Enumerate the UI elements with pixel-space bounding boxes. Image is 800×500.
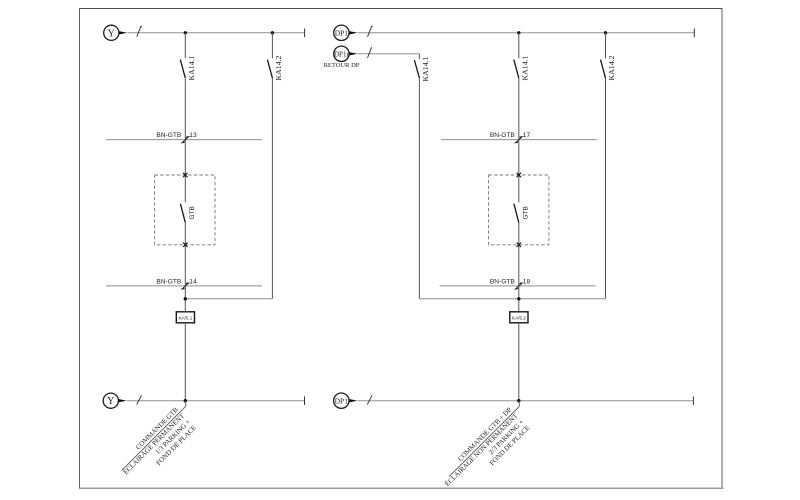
svg-text:14: 14 bbox=[189, 279, 197, 286]
svg-text:BN-GTB: BN-GTB bbox=[490, 279, 516, 286]
svg-text:GTB: GTB bbox=[523, 206, 530, 219]
svg-text:DP1r: DP1r bbox=[334, 50, 349, 58]
svg-text:BN-GTB: BN-GTB bbox=[156, 132, 182, 139]
svg-text:KA/5.2: KA/5.2 bbox=[512, 315, 526, 320]
svg-text:BN-GTB: BN-GTB bbox=[490, 132, 516, 139]
svg-text:Y: Y bbox=[107, 396, 114, 407]
svg-text:KA14.2: KA14.2 bbox=[274, 55, 283, 80]
svg-text:GTB: GTB bbox=[189, 206, 196, 219]
svg-text:DP1: DP1 bbox=[335, 396, 349, 405]
svg-text:KA14.1: KA14.1 bbox=[520, 55, 529, 80]
svg-text:13: 13 bbox=[189, 132, 197, 139]
svg-text:Y: Y bbox=[108, 28, 115, 39]
svg-text:BN-GTB: BN-GTB bbox=[156, 279, 182, 286]
svg-text:18: 18 bbox=[523, 279, 531, 286]
svg-text:KA14.1: KA14.1 bbox=[421, 56, 430, 81]
svg-text:KA14.1: KA14.1 bbox=[187, 55, 196, 80]
svg-text:KA/5.1: KA/5.1 bbox=[179, 315, 193, 320]
svg-text:KA14.2: KA14.2 bbox=[607, 55, 616, 80]
svg-text:17: 17 bbox=[523, 132, 531, 139]
svg-text:RETOUR DP: RETOUR DP bbox=[324, 62, 360, 69]
svg-text:DP1: DP1 bbox=[335, 29, 349, 38]
